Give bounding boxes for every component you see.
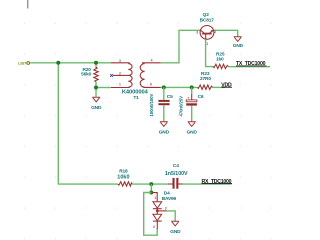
junction R20 top: [94, 61, 98, 65]
wire R25 to TX label: [228, 66, 270, 68]
svg-text:BAV99: BAV99: [162, 196, 177, 202]
primary winding: [128, 63, 132, 88]
svg-text:T1: T1: [133, 95, 139, 101]
net label TX_TDC1000: [236, 61, 267, 67]
svg-text:2: 2: [119, 71, 121, 75]
svg-text:56k0: 56k0: [81, 72, 92, 78]
wire C4 to RX label: [183, 183, 232, 185]
pin 4: [142, 59, 161, 63]
wire Q2 base down to R25: [206, 39, 214, 66]
wire vertical trunk down to RX row: [58, 63, 118, 184]
capacitor C6 polarized: [179, 87, 204, 122]
svg-text:10k0: 10k0: [117, 174, 129, 180]
svg-text:3: 3: [196, 30, 198, 34]
svg-text:1: 1: [119, 83, 121, 87]
svg-text:D4: D4: [164, 191, 170, 197]
resistor R25: [213, 52, 228, 69]
cropped frame mark top: [27, 0, 29, 9]
wire RX node down to D4: [150, 184, 152, 192]
svg-text:GND: GND: [187, 130, 198, 136]
capacitor C5: [149, 87, 173, 122]
svg-text:2: 2: [153, 225, 155, 229]
svg-text:Q2: Q2: [203, 12, 210, 18]
junction D4 top: [149, 191, 153, 195]
wire R20 top stub: [95, 63, 97, 68]
ground under R20: [91, 97, 102, 111]
svg-text:3: 3: [119, 59, 121, 63]
resistor R18: [117, 169, 132, 187]
wire LIST to transformer pin3: [30, 62, 111, 64]
ground under C5: [159, 122, 170, 136]
secondary winding: [140, 63, 144, 88]
svg-text:C4: C4: [173, 163, 179, 169]
net label LIST: [18, 61, 29, 66]
wire D4 pin3 to GND: [167, 211, 176, 222]
diode D4 BAV99: [152, 191, 177, 229]
capacitor C4: [165, 163, 188, 189]
junction node LIST trunk: [56, 61, 60, 65]
svg-text:1: 1: [154, 196, 156, 200]
svg-text:+: +: [187, 95, 190, 100]
wire secondary bottom bus C5 C6 to R23: [161, 86, 198, 88]
svg-text:GND: GND: [91, 105, 102, 111]
wire R18 to C4: [132, 183, 168, 185]
transformer T1: [110, 59, 161, 101]
svg-text:2: 2: [214, 30, 216, 34]
svg-text:LIST: LIST: [18, 61, 27, 66]
svg-text:GND: GND: [170, 229, 181, 235]
junction R20 bottom: [94, 86, 98, 90]
junction RX node: [149, 182, 153, 186]
svg-text:4: 4: [151, 59, 153, 63]
pin 2 with no-connect cross: [110, 71, 128, 76]
pin 6: [144, 82, 161, 87]
svg-text:K4000004: K4000004: [122, 89, 149, 95]
svg-text:470n0/25V: 470n0/25V: [179, 96, 184, 117]
wire Q2 emitter to GND: [214, 30, 238, 37]
net label RX_TDC1000: [202, 179, 233, 185]
ground under C6: [187, 122, 198, 136]
svg-text:1: 1: [206, 42, 208, 46]
ground at D4: [170, 221, 181, 235]
junction C6: [190, 85, 194, 89]
svg-text:GND: GND: [159, 130, 170, 136]
svg-text:3: 3: [165, 207, 167, 211]
wire R20 bottom to transformer pin1: [96, 87, 111, 89]
resistor R23: [197, 71, 212, 89]
transistor Q2: [196, 12, 216, 46]
wire D4 loop pin2 to pin1: [144, 193, 158, 236]
svg-text:1n5/100V: 1n5/100V: [165, 171, 188, 177]
junction C5: [162, 85, 166, 89]
wire R23 to VDD: [213, 86, 225, 88]
pin 3: [111, 59, 129, 63]
svg-text:GND: GND: [233, 43, 244, 49]
wire R20 bottom to GND: [95, 82, 97, 97]
ground at Q2 emitter: [233, 37, 244, 49]
pin 1: [111, 83, 129, 88]
svg-text:C6: C6: [198, 94, 204, 100]
svg-text:6: 6: [150, 82, 152, 86]
svg-text:BC817: BC817: [200, 17, 215, 23]
svg-text:100n0/100V: 100n0/100V: [149, 94, 154, 117]
svg-text:27R0: 27R0: [200, 76, 211, 82]
svg-text:C5: C5: [167, 94, 173, 100]
wire pin4 riser to Q2 collector: [161, 30, 201, 63]
net label VDD: [221, 82, 232, 88]
svg-text:1k0: 1k0: [216, 56, 224, 62]
resistor R20: [81, 67, 98, 82]
